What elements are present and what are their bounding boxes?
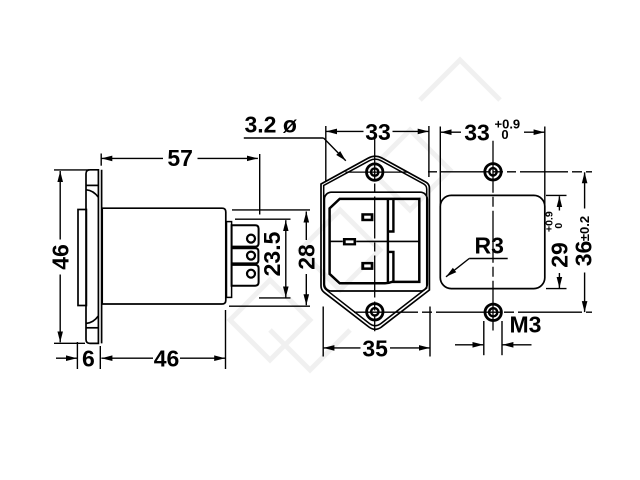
dimension 36 +-0.2 (584, 172, 586, 312)
terminal bracket (227, 222, 232, 298)
svg-text:33: 33 (365, 119, 391, 145)
fuse drawer divider (387, 200, 389, 283)
mounting hole bottom (middle view) (367, 304, 383, 320)
tab hole 2 (247, 252, 255, 260)
fuse drawer bottom hook (388, 252, 394, 282)
dimension 46 vertical (54, 170, 89, 343)
svg-text:35: 35 (362, 335, 388, 361)
svg-text:0: 0 (501, 127, 508, 142)
flange rib curve top (86, 190, 98, 198)
terminal tab 1 (232, 225, 259, 246)
centerline horizontal bottom (354, 311, 592, 313)
mounting hole top (middle view) (367, 164, 383, 180)
gasket line (101, 170, 103, 344)
line pin bottom (361, 262, 373, 270)
svg-text:23.5: 23.5 (259, 231, 285, 276)
dimension 23.5 (235, 219, 291, 298)
terminal tab 3 (232, 265, 259, 286)
flange rib curve bottom (86, 316, 98, 324)
flange rib line top (86, 184, 98, 186)
fuse drawer top hook (388, 199, 394, 231)
svg-text:±0.2: ±0.2 (577, 216, 592, 241)
dimension 29 +0.9/0 (546, 195, 567, 288)
flange hexagon outer (321, 156, 429, 329)
dimension 33 +0.9/0 (440, 127, 545, 208)
dimension 35 (323, 307, 430, 357)
centerline horizontal top (346, 171, 409, 173)
body (102, 208, 226, 304)
cutout rectangle (440, 195, 545, 288)
mounting hole top (right view) (485, 164, 501, 180)
socket recess outline (330, 199, 420, 283)
tab hole 1 (247, 235, 255, 243)
svg-text:M3: M3 (510, 312, 542, 338)
watermark ghost shapes (230, 60, 500, 370)
flange plate (86, 170, 98, 344)
svg-text:57: 57 (167, 145, 193, 171)
dimension 6 (56, 342, 100, 369)
line pin top (361, 213, 373, 221)
svg-text:36: 36 (571, 241, 597, 267)
mounting hole bottom (right view) M3 (485, 304, 501, 320)
front plate (78, 210, 86, 306)
svg-text:33: 33 (464, 119, 490, 145)
socket face (324, 192, 427, 291)
centerline horizontal top right (428, 171, 592, 173)
dimension 33 (middle) (326, 126, 429, 181)
dimension 46 horizontal (101, 310, 225, 369)
tab hole 3 (247, 270, 255, 278)
flange hexagon inner (324, 159, 427, 326)
svg-text:29: 29 (547, 242, 573, 268)
svg-text:R3: R3 (475, 233, 504, 259)
terminal tab 2 (232, 248, 259, 263)
dimension 28 (229, 210, 310, 306)
svg-text:28: 28 (294, 244, 320, 270)
centerline vertical middle view (374, 138, 376, 332)
svg-text:0: 0 (553, 223, 565, 229)
svg-text:3.2 ø: 3.2 ø (245, 111, 297, 137)
svg-text:6: 6 (82, 346, 95, 372)
recess centerline (330, 240, 419, 242)
flange rib line bottom (86, 327, 98, 329)
svg-text:46: 46 (48, 244, 74, 270)
svg-text:46: 46 (154, 346, 180, 372)
earth pin (343, 238, 356, 245)
centerline vertical right view (492, 141, 494, 331)
dimension 57 (101, 154, 260, 215)
